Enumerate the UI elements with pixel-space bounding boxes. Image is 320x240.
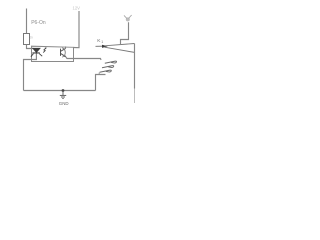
wire resistor to LED anode	[27, 45, 34, 49]
svg-text:1: 1	[101, 40, 103, 44]
bottom ground rail	[24, 90, 96, 92]
wire emitter to coil	[66, 57, 101, 60]
contact fixed line to right elbow	[105, 44, 135, 46]
wire coil bottom to ground rail	[98, 73, 100, 75]
contact feed stub from supply	[121, 22, 129, 45]
wire collector to +V rail	[65, 47, 67, 49]
LED D1 (inside optocoupler)	[31, 48, 42, 56]
relay coil K1 (three spring curls)	[100, 61, 117, 72]
wire input vertical P6-On	[26, 9, 28, 35]
wire switched output (right vertical)	[134, 44, 136, 89]
optocoupler U1 box	[32, 46, 74, 61]
resistor R1	[24, 34, 30, 45]
svg-text:GND: GND	[59, 101, 69, 106]
ground	[60, 91, 66, 99]
svg-text:12V: 12V	[73, 6, 81, 11]
svg-text:1k: 1k	[30, 36, 34, 40]
photon arrow	[43, 48, 46, 53]
junction node	[62, 89, 65, 92]
contact armature sloped line	[105, 47, 135, 52]
phototransistor Q1 (inside optocoupler)	[61, 48, 66, 57]
svg-text:P6-On: P6-On	[31, 20, 46, 26]
mains plug symbol	[124, 15, 132, 21]
wire LED cathode	[24, 54, 37, 91]
relay contact arrow (moving contact)	[96, 45, 103, 47]
